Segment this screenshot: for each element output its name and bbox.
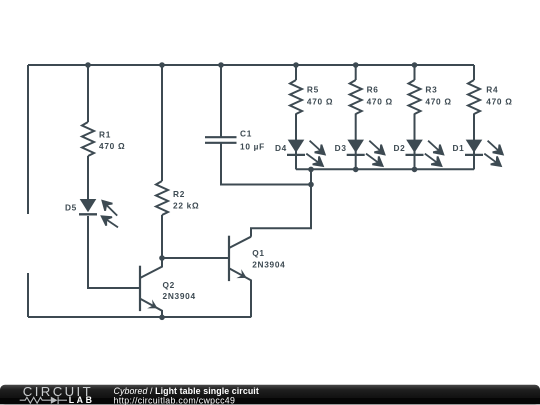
svg-text:R5: R5 <box>307 85 319 95</box>
svg-text:R1: R1 <box>99 129 111 139</box>
svg-text:R6: R6 <box>367 85 379 95</box>
svg-text:http://circuitlab.com/cwpcc49: http://circuitlab.com/cwpcc49 <box>114 395 236 405</box>
svg-text:R2: R2 <box>173 189 185 199</box>
svg-text:Cybored / Light table single c: Cybored / Light table single circuit <box>114 386 259 396</box>
svg-text:470 Ω: 470 Ω <box>307 97 333 107</box>
svg-text:470 Ω: 470 Ω <box>425 97 451 107</box>
svg-text:10 µF: 10 µF <box>240 141 265 151</box>
svg-text:D2: D2 <box>393 143 405 153</box>
svg-text:R3: R3 <box>425 85 437 95</box>
svg-text:470 Ω: 470 Ω <box>486 97 512 107</box>
svg-text:Q2: Q2 <box>163 280 175 290</box>
svg-text:Q1: Q1 <box>252 248 264 258</box>
svg-text:LAB: LAB <box>69 395 95 405</box>
svg-text:D1: D1 <box>452 143 464 153</box>
svg-text:R4: R4 <box>486 85 498 95</box>
svg-text:2N3904: 2N3904 <box>252 259 285 269</box>
svg-text:C1: C1 <box>240 129 252 139</box>
svg-text:470 Ω: 470 Ω <box>99 141 125 151</box>
svg-text:470 Ω: 470 Ω <box>367 97 393 107</box>
svg-text:D3: D3 <box>335 143 347 153</box>
svg-text:2N3904: 2N3904 <box>163 291 196 301</box>
svg-text:22 kΩ: 22 kΩ <box>173 201 199 211</box>
svg-text:D5: D5 <box>65 202 77 212</box>
svg-text:D4: D4 <box>275 143 287 153</box>
